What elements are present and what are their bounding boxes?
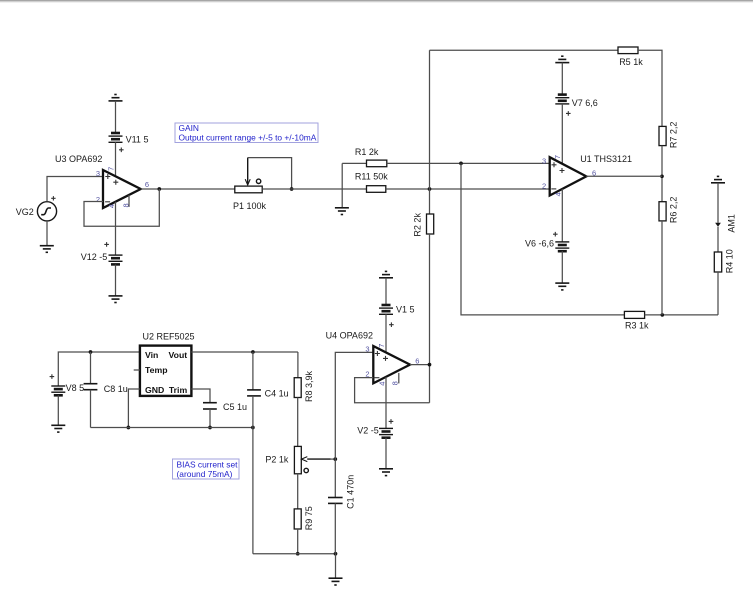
ground (mirrored) above V7 [555, 56, 569, 62]
svg-text:2: 2 [96, 195, 100, 204]
wire R11 to U1 pin2 [386, 188, 550, 190]
svg-text:U1 THS3121: U1 THS3121 [580, 154, 632, 164]
ground (mirrored) above V1 [379, 271, 393, 277]
svg-text:R4 10: R4 10 [725, 249, 735, 273]
wire R8 to P2 [297, 398, 299, 447]
ground bottom center [329, 578, 343, 585]
wire bottom rail to ground stub [253, 553, 336, 555]
resistor R6 [659, 202, 666, 221]
battery V7 [555, 95, 569, 104]
svg-text:Vin: Vin [145, 350, 158, 360]
svg-text:C5 1u: C5 1u [223, 402, 247, 412]
wire V12 to ground [115, 264, 117, 296]
svg-text:GND: GND [145, 385, 164, 395]
IC U2 REF5025 [140, 346, 192, 396]
svg-text:6: 6 [145, 180, 149, 189]
wire ground to V7 [561, 63, 563, 95]
svg-text:BIAS current set: BIAS current set [177, 460, 239, 470]
svg-text:R11 50k: R11 50k [355, 172, 388, 182]
wire U1 output [586, 175, 662, 177]
node U3 output [157, 187, 161, 191]
wire V8 to rail [58, 352, 140, 386]
wire Trim pin to C5 [191, 389, 210, 403]
node U1 output junction [660, 174, 664, 178]
text box GAIN [175, 123, 318, 143]
wire R2 down to U4 output [429, 234, 431, 403]
resistor R9 [294, 509, 301, 529]
resistor R3 [624, 311, 644, 318]
svg-text:R8 3,9k: R8 3,9k [304, 370, 314, 402]
wire U4 feedback loop [355, 378, 430, 403]
svg-text:7: 7 [553, 155, 562, 159]
svg-text:V1 5: V1 5 [396, 305, 415, 315]
wire P2 wiper to C1 branch [331, 458, 336, 460]
svg-text:C8 1u: C8 1u [104, 384, 128, 394]
ammeter AM1 arrow [715, 223, 721, 227]
wire U1 pin4 to V6 [561, 189, 563, 242]
node rail / C4 junction [251, 426, 255, 430]
svg-text:R9 75: R9 75 [304, 506, 314, 530]
wire P2 bottom to R9 [297, 474, 299, 509]
svg-text:VG2: VG2 [16, 207, 34, 217]
plus mark V8 [50, 374, 55, 379]
wire V11 to U3 pin7 [115, 142, 117, 176]
node C5 bottom junction [208, 426, 212, 430]
resistor R1 [367, 160, 387, 167]
wire R1 left to ground [341, 163, 343, 207]
battery V8 [51, 386, 65, 395]
wire U4 output [410, 364, 430, 366]
wire R4 down to bottom loop [717, 272, 719, 315]
node Vout / C4 junction [251, 350, 255, 354]
wire VG2 top to U3 pin3 [47, 177, 103, 202]
svg-text:R6 2,2: R6 2,2 [669, 197, 679, 224]
svg-text:V6 -6,6: V6 -6,6 [525, 239, 554, 249]
svg-text:V7 6,6: V7 6,6 [572, 98, 598, 108]
text box BIAS [173, 459, 240, 479]
resistor R2 [427, 214, 434, 234]
svg-text:Trim: Trim [169, 385, 188, 395]
ground (mirrored) above V11 [109, 95, 123, 101]
svg-text:R3 1k: R3 1k [625, 321, 649, 331]
plus mark V11 [119, 148, 124, 153]
svg-text:3: 3 [96, 169, 100, 178]
battery V12 [109, 255, 123, 264]
wire ground to V11 [115, 101, 117, 133]
capacitor C5 [203, 403, 217, 428]
svg-text:R5 1k: R5 1k [619, 57, 643, 67]
ground below V6 [555, 283, 569, 290]
svg-text:AM1: AM1 [727, 214, 737, 233]
ground below V2 [379, 469, 393, 476]
pin 8 stub U4 [398, 373, 400, 384]
wire V1 to U4 pin7 [385, 314, 387, 353]
capacitor C1 [328, 498, 343, 554]
wire pin3 node down to bottom loop [461, 163, 624, 315]
svg-text:U3 OPA692: U3 OPA692 [55, 154, 102, 164]
plus mark V6 [553, 232, 558, 237]
svg-text:2: 2 [542, 181, 546, 190]
ground below V12 [109, 296, 123, 303]
node C8 top junction [89, 350, 93, 354]
svg-text:7: 7 [107, 167, 116, 171]
wire ground stub [335, 554, 337, 579]
wire GND pin [128, 389, 139, 428]
battery V1 [379, 305, 393, 314]
svg-text:8: 8 [122, 203, 131, 207]
node P2 wiper junction [333, 457, 337, 461]
svg-text:4: 4 [378, 382, 387, 386]
wire to R1 [342, 162, 366, 164]
pin 8 stub U3 [128, 195, 130, 207]
wire V8 to ground [57, 395, 59, 425]
svg-text:P2 1k: P2 1k [265, 454, 289, 464]
svg-text:C1 470n: C1 470n [345, 475, 355, 509]
battery V2 [379, 428, 393, 437]
resistor R8 [294, 378, 301, 398]
wire U4 pin4 to V2 [385, 377, 387, 429]
wire U4 pin3 branch [335, 352, 373, 497]
wire VG2 bottom to ground [46, 221, 48, 246]
node R1/R3 feedback junction [459, 162, 463, 166]
svg-text:U2 REF5025: U2 REF5025 [143, 332, 195, 342]
wire Vout corner down to R8 [297, 352, 299, 378]
ground below V8 [51, 425, 65, 432]
svg-text:4: 4 [107, 204, 116, 208]
svg-text:Temp: Temp [145, 365, 168, 375]
battery V11 [109, 133, 123, 142]
svg-text:7: 7 [377, 344, 386, 348]
Temp pin stub [134, 369, 140, 371]
ground (mirrored) above AM1 [711, 176, 725, 182]
battery V6 [555, 242, 569, 251]
resistor R5 [618, 47, 638, 54]
potentiometer P1 [235, 158, 262, 193]
potentiometer P2 [294, 446, 330, 473]
wire U3 output [141, 188, 235, 190]
wire top feedback loop vertical [429, 50, 431, 214]
top toolbar edge bar [0, 0, 753, 1]
resistor R4 [714, 252, 721, 272]
svg-text:Output current range +/-5 to +: Output current range +/-5 to +/-10mA [179, 132, 317, 142]
svg-text:U4 OPA692: U4 OPA692 [326, 331, 373, 341]
wire top loop horizontal [430, 49, 619, 51]
op-amp U1 [550, 157, 587, 195]
voltage source VG2 [37, 196, 56, 221]
ground below VG2 [40, 246, 54, 253]
svg-text:R7 2,2: R7 2,2 [669, 122, 679, 149]
wire P1 wiper to output node [248, 158, 292, 189]
node R11/R2 junction [428, 187, 432, 191]
wire bottom rail U2 [91, 427, 253, 429]
wire R1 to U1 pin3 [387, 162, 550, 164]
wire ground to AM1 [717, 183, 719, 223]
svg-text:3: 3 [365, 345, 369, 354]
wire R6 down to bottom loop [661, 221, 663, 315]
capacitor C4 [247, 352, 261, 554]
svg-text:3: 3 [542, 157, 546, 166]
capacitor C8 [84, 352, 98, 428]
wire V2 to ground [385, 438, 387, 469]
wire R7 to output node [661, 146, 663, 202]
wire Vout rail [191, 351, 298, 353]
wire U3 feedback loop [84, 189, 159, 226]
node GND pin junction [127, 426, 131, 430]
plus mark V7 [566, 111, 571, 116]
wire ground to V1 [385, 278, 387, 305]
op-amp U3 [103, 170, 141, 208]
plus mark V1 [389, 322, 394, 327]
wire R3 to AM1 branch [645, 314, 718, 316]
wire R5 to right vertical [638, 50, 662, 126]
svg-text:R1 2k: R1 2k [355, 147, 379, 157]
svg-text:V11 5: V11 5 [126, 135, 149, 145]
svg-text:P1 100k: P1 100k [233, 201, 267, 211]
svg-text:V8 5: V8 5 [66, 383, 85, 393]
wire V7 to U1 pin7 [561, 104, 563, 164]
node R9 bottom junction [296, 552, 300, 556]
wire R9 to bottom rail [297, 529, 299, 554]
plus mark V12 [104, 242, 109, 247]
svg-text:V2 -5: V2 -5 [357, 426, 379, 436]
wire P1 right to R11 [262, 188, 366, 190]
node C1 bottom junction [334, 552, 338, 556]
node P1 wiper junction [290, 187, 294, 191]
svg-text:C4 1u: C4 1u [265, 389, 289, 399]
svg-text:R2 2k: R2 2k [413, 213, 423, 237]
node R3/R6 junction [661, 313, 665, 317]
node U4 output junction [428, 363, 432, 367]
svg-text:(around 75mA): (around 75mA) [177, 469, 233, 479]
ground below R1 [335, 208, 349, 215]
wire AM1 to R4 [717, 227, 719, 252]
svg-text:8: 8 [390, 381, 399, 385]
wire V6 to ground [561, 251, 563, 283]
resistor R11 [367, 186, 386, 193]
resistor R7 [659, 126, 666, 145]
svg-text:Vout: Vout [169, 350, 188, 360]
svg-text:4: 4 [554, 192, 563, 196]
svg-text:V12 -5: V12 -5 [81, 252, 108, 262]
wire U3 pin4 to V12 [115, 202, 117, 255]
op-amp U4 [373, 346, 410, 383]
plus mark V2 [389, 419, 394, 424]
